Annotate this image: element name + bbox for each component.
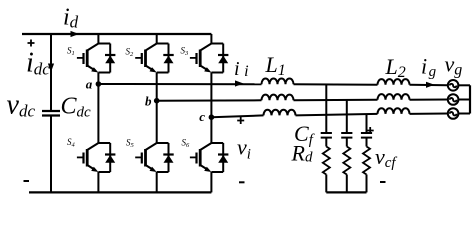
leg A upper wire bbox=[97, 34, 99, 44]
capacitor C_dc bbox=[42, 110, 60, 112]
transistor S4 bbox=[77, 143, 116, 172]
svg-text:S3: S3 bbox=[181, 46, 190, 58]
svg-text:S1: S1 bbox=[67, 46, 75, 58]
filter branch 3 lower wire bbox=[366, 175, 368, 193]
transistor S3 bbox=[190, 44, 229, 73]
leg B middle wire bbox=[156, 73, 158, 144]
current arrow i_i bbox=[235, 80, 244, 86]
leg A middle wire bbox=[97, 73, 99, 144]
capacitor C_f branch 1 bbox=[321, 133, 332, 138]
dc-link branch wire upper bbox=[50, 34, 52, 111]
leg B lower wire bbox=[156, 172, 158, 192]
phase a wire: L1 to L2 bbox=[294, 83, 378, 86]
filter branch 3 mid wire bbox=[366, 138, 368, 147]
source stub wire a bbox=[458, 84, 470, 86]
phase c wire: L2 to source bbox=[410, 113, 449, 115]
phase a wire: L2 to source bbox=[410, 84, 449, 87]
minus sign (v_dc -) bbox=[24, 180, 30, 182]
plus sign (v_dc +) bbox=[28, 40, 35, 47]
phase c wire: node c to L1 bbox=[211, 115, 263, 117]
filter branch 2 lower wire bbox=[346, 175, 348, 193]
svg-text:L1: L1 bbox=[265, 52, 286, 79]
inductor L2 phase b bbox=[378, 94, 410, 100]
capacitor C_f branch 2 bbox=[341, 133, 352, 138]
resistor R_d branch 2 bbox=[343, 147, 350, 175]
source stub wire c bbox=[458, 113, 470, 115]
top DC rail wire bbox=[22, 33, 211, 35]
node b bbox=[154, 98, 160, 104]
phase b wire: L2 to source bbox=[410, 99, 449, 101]
transistor S5 bbox=[135, 143, 174, 172]
svg-text:ii: ii bbox=[234, 58, 249, 80]
svg-text:vi: vi bbox=[237, 135, 251, 163]
phase b wire: L1 to L2 bbox=[294, 99, 378, 102]
leg C upper wire bbox=[210, 34, 212, 44]
leg A lower wire bbox=[97, 172, 99, 192]
inductor L2 phase a bbox=[378, 79, 410, 85]
svg-text:Cdc: Cdc bbox=[61, 94, 92, 121]
grid source phase a bbox=[448, 80, 459, 91]
filter branch 1 mid wire bbox=[325, 138, 327, 147]
filter branch 3 upper wire bbox=[366, 114, 368, 133]
current arrow i_d bbox=[71, 31, 80, 37]
phase a wire: node a to L1 bbox=[98, 83, 261, 85]
leg B upper wire bbox=[156, 34, 158, 44]
svg-text:vg: vg bbox=[445, 52, 463, 79]
bottom DC rail wire bbox=[29, 191, 211, 193]
dc-link branch wire lower bbox=[50, 116, 52, 193]
plus sign (v_cf +) bbox=[367, 127, 374, 134]
svg-text:id: id bbox=[63, 5, 79, 32]
transistor S2 bbox=[135, 44, 174, 73]
resistor R_d branch 1 bbox=[323, 147, 330, 175]
svg-text:S4: S4 bbox=[67, 137, 76, 149]
inductor L1 phase c bbox=[264, 110, 296, 116]
capacitor C_f branch 3 bbox=[361, 133, 372, 138]
svg-text:vdc: vdc bbox=[7, 90, 36, 121]
filter branch 2 mid wire bbox=[346, 138, 348, 147]
svg-text:S2: S2 bbox=[126, 47, 135, 59]
minus sign (v_cf -) bbox=[380, 181, 386, 183]
node a bbox=[96, 81, 102, 87]
grid source phase b bbox=[448, 94, 459, 105]
minus sign (v_i -) bbox=[239, 181, 245, 183]
filter branch 2 upper wire bbox=[346, 100, 348, 133]
resistor R_d branch 3 bbox=[363, 147, 370, 175]
leg C lower wire bbox=[210, 172, 212, 192]
svg-text:S5: S5 bbox=[126, 138, 135, 150]
filter branch 1 upper wire bbox=[325, 84, 327, 133]
grid neutral bus wire bbox=[469, 85, 471, 113]
inductor L2 phase c bbox=[378, 108, 410, 114]
svg-text:b: b bbox=[145, 93, 152, 108]
plus sign (v_i +) bbox=[237, 117, 244, 124]
inductor L1 phase a bbox=[262, 79, 294, 85]
svg-text:a: a bbox=[86, 76, 93, 91]
svg-text:c: c bbox=[199, 109, 205, 124]
current arrow i_g bbox=[426, 82, 435, 88]
svg-text:S6: S6 bbox=[182, 138, 191, 150]
source stub wire b bbox=[458, 99, 470, 101]
svg-text:L2: L2 bbox=[385, 54, 406, 81]
transistor S6 bbox=[190, 143, 229, 172]
phase b wire: node b to L1 bbox=[157, 99, 262, 101]
node c bbox=[209, 114, 215, 120]
svg-text:idc: idc bbox=[26, 48, 50, 79]
current arrow i_dc bbox=[48, 64, 54, 73]
leg C middle wire bbox=[210, 73, 212, 144]
inductor L1 phase b bbox=[262, 95, 294, 101]
svg-text:vcf: vcf bbox=[375, 144, 397, 171]
grid source phase c bbox=[448, 108, 459, 119]
svg-text:ig: ig bbox=[421, 54, 437, 81]
filter branch 1 lower wire bbox=[325, 175, 327, 193]
phase c wire: L1 to L2 bbox=[296, 114, 378, 116]
transistor S1 bbox=[77, 44, 116, 73]
filter star-point wire bbox=[326, 191, 366, 193]
